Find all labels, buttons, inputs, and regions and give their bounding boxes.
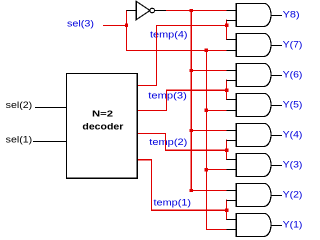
svg-text:decoder: decoder	[82, 122, 124, 132]
svg-text:Y(5): Y(5)	[283, 99, 303, 110]
svg-text:temp(4): temp(4)	[150, 30, 188, 41]
svg-text:Y8): Y8)	[283, 9, 300, 20]
svg-text:Y(6): Y(6)	[283, 69, 303, 80]
svg-text:sel(2): sel(2)	[6, 100, 33, 111]
svg-text:sel(3): sel(3)	[67, 19, 94, 30]
svg-text:N=2: N=2	[92, 108, 113, 118]
svg-text:Y(7): Y(7)	[283, 39, 303, 50]
svg-text:temp(1): temp(1)	[154, 198, 192, 209]
svg-text:sel(1): sel(1)	[6, 135, 33, 146]
svg-text:Y(4): Y(4)	[283, 129, 303, 140]
svg-text:temp(2): temp(2)	[149, 137, 187, 148]
svg-text:Y(3): Y(3)	[283, 159, 303, 170]
svg-text:Y(1): Y(1)	[283, 219, 303, 230]
svg-text:temp(3): temp(3)	[148, 91, 187, 102]
svg-text:Y(2): Y(2)	[283, 189, 303, 200]
